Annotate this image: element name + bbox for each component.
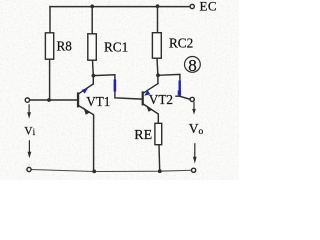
svg-text:RC2: RC2 [169, 36, 193, 51]
svg-text:8: 8 [188, 56, 197, 75]
svg-text:VT2: VT2 [149, 92, 173, 107]
svg-text:Vi: Vi [24, 125, 35, 137]
svg-text:RE: RE [134, 128, 152, 143]
svg-text:EC: EC [200, 0, 217, 13]
svg-text:RC1: RC1 [104, 39, 128, 54]
svg-text:R8: R8 [57, 39, 73, 54]
svg-text:VT1: VT1 [86, 94, 110, 109]
